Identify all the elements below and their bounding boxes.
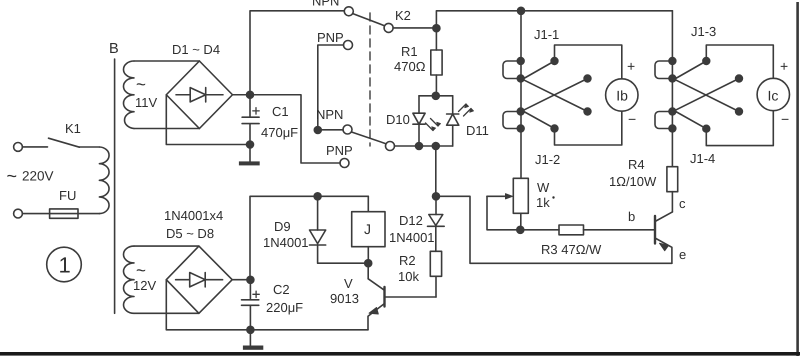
wire: base of 9013 (385, 296, 437, 298)
wire (655, 61, 672, 79)
svg-text:J1-2: J1-2 (535, 152, 560, 167)
contact blade J1-3 (674, 61, 706, 80)
svg-text:11V: 11V (135, 95, 157, 110)
svg-text:J: J (364, 221, 371, 237)
node (517, 125, 524, 132)
svg-text:D1 ~ D4: D1 ~ D4 (172, 42, 220, 57)
svg-text:470Ω: 470Ω (394, 59, 426, 74)
node (584, 108, 591, 115)
svg-text:C2: C2 (273, 282, 290, 297)
node: AC input terminal lower (14, 209, 23, 218)
contact blade J1-1 (522, 61, 555, 80)
svg-text:J1-4: J1-4 (690, 151, 715, 166)
switch K2 upper: NPN throw (344, 7, 353, 16)
resistor R2 (430, 251, 441, 276)
node (669, 58, 676, 65)
switch K2 lower blade (352, 132, 386, 144)
node (365, 260, 372, 267)
svg-text:D5 ~ D8: D5 ~ D8 (166, 226, 214, 241)
resistor R4 (667, 167, 678, 192)
switch K2 upper pole (384, 23, 393, 32)
svg-text:D9: D9 (274, 219, 291, 234)
contact crossover wire (522, 79, 588, 112)
wire to meter Ic (706, 45, 773, 78)
switch K1 (49, 138, 80, 147)
svg-text:D11: D11 (466, 123, 489, 138)
label circled 1 (47, 247, 82, 282)
svg-text:R4: R4 (628, 157, 645, 172)
node (551, 125, 558, 132)
svg-text:D12: D12 (399, 213, 423, 228)
wire (233, 94, 251, 96)
K2 mechanical link (dashed) (369, 13, 371, 146)
wire (436, 11, 672, 28)
svg-text:10k: 10k (398, 269, 419, 284)
node (247, 91, 254, 98)
wire (419, 95, 453, 97)
bridge rectifier D5~D8 (166, 246, 232, 313)
svg-text:D10: D10 (386, 112, 410, 127)
svg-text:Ib: Ib (616, 88, 628, 104)
resistor R3 (559, 225, 584, 235)
node (736, 75, 743, 82)
node (314, 127, 321, 134)
potentiometer wiper (487, 195, 508, 197)
svg-text:NPN: NPN (316, 107, 343, 122)
node (517, 75, 524, 82)
transformer secondary 11V (123, 61, 134, 129)
contact crossover wire (522, 79, 588, 112)
wire (232, 279, 250, 281)
ground (249, 330, 251, 346)
wire (22, 213, 49, 215)
svg-text:J1-1: J1-1 (534, 27, 559, 42)
wire (134, 245, 199, 247)
wire to meter Ib (555, 45, 622, 79)
resistor R1 (435, 32, 437, 50)
node (433, 193, 440, 200)
node (247, 141, 254, 148)
contact blade J1-2 (522, 111, 555, 129)
node (433, 25, 440, 32)
wire (78, 213, 99, 215)
fuse FU (50, 209, 78, 218)
wire (584, 229, 656, 231)
node (669, 125, 676, 132)
node (416, 143, 423, 150)
node (247, 326, 254, 333)
svg-text:1N4001: 1N4001 (263, 235, 309, 250)
wire: +11V rail up and to NPN contact (250, 11, 344, 95)
wire (254, 95, 341, 163)
svg-text:R3 47Ω/W: R3 47Ω/W (541, 242, 602, 257)
wire (393, 27, 436, 29)
wire (134, 312, 199, 314)
wire from meter Ic (706, 111, 773, 146)
node (314, 193, 321, 200)
relay coil J (367, 196, 369, 211)
svg-text:1Ω/10W: 1Ω/10W (609, 174, 657, 189)
svg-text:~: ~ (136, 75, 146, 94)
svg-text:9013: 9013 (330, 291, 359, 306)
wire (134, 60, 199, 62)
wire (395, 145, 453, 147)
meter Ic (757, 78, 789, 110)
wire (503, 112, 521, 129)
svg-text:+: + (780, 58, 788, 74)
svg-text:220V: 220V (22, 169, 54, 184)
scan border right (796, 2, 799, 356)
capacitor C1 (242, 95, 259, 145)
node (518, 7, 525, 14)
transistor V 9013 (367, 263, 369, 279)
node (517, 108, 524, 115)
contact crossover wire (673, 79, 739, 112)
svg-text:470μF: 470μF (261, 125, 298, 140)
node (669, 108, 676, 115)
svg-text:Ic: Ic (768, 88, 779, 104)
wire (318, 129, 343, 131)
svg-text:J1-3: J1-3 (691, 24, 716, 39)
wire (524, 229, 559, 231)
contact crossover wire (673, 79, 739, 112)
node (432, 143, 439, 150)
svg-text:C1: C1 (272, 104, 289, 119)
svg-text:~: ~ (7, 166, 18, 186)
transformer core (114, 59, 116, 313)
svg-text:V: V (344, 276, 353, 291)
node (247, 276, 254, 283)
svg-text:1N4001x4: 1N4001x4 (164, 208, 223, 223)
wire: V+ of lower supply up to relay line (250, 196, 368, 279)
wire (520, 11, 522, 179)
svg-text:W: W (537, 180, 550, 195)
node (517, 226, 524, 233)
wire (134, 128, 199, 130)
svg-text:R1: R1 (401, 44, 418, 59)
node (736, 108, 743, 115)
wire (79, 146, 99, 148)
svg-text:PNP: PNP (326, 143, 353, 158)
svg-text:B: B (109, 41, 119, 57)
contact PNP upper (344, 41, 353, 50)
transformer secondary 12V (123, 246, 134, 313)
svg-text:220μF: 220μF (266, 300, 303, 315)
wire (22, 146, 47, 148)
svg-text:K2: K2 (395, 8, 411, 23)
node (669, 75, 676, 82)
scan border bottom (0, 352, 800, 356)
wire: bottom rail (250, 329, 368, 331)
switch K2 upper blade (353, 14, 385, 26)
wire (166, 95, 250, 145)
transistor under test (655, 212, 672, 222)
bridge rectifier D1~D4 (166, 61, 232, 129)
meter Ib (606, 79, 638, 111)
svg-text:12V: 12V (133, 278, 156, 293)
wire (318, 45, 344, 130)
node (703, 125, 710, 132)
node (551, 58, 558, 65)
wire (503, 61, 521, 79)
switch K2 lower pole (386, 142, 395, 151)
contact blade J1-4 (674, 111, 706, 129)
wire: emitter return (436, 196, 672, 263)
svg-text:−: − (628, 111, 636, 127)
wire (166, 280, 250, 330)
LED D11 (452, 96, 454, 114)
wire (435, 146, 437, 196)
ground (249, 145, 251, 162)
LED D10 (418, 96, 420, 113)
svg-text:K1: K1 (65, 121, 81, 136)
wire from meter Ib (555, 111, 622, 145)
capacitor C2 (242, 280, 259, 330)
contact NPN lower (343, 125, 352, 134)
contact PNP lower (340, 159, 349, 168)
svg-text:1: 1 (59, 253, 71, 278)
wire (655, 112, 672, 129)
svg-text:c: c (679, 196, 686, 211)
node (703, 58, 710, 65)
node (432, 92, 439, 99)
node: AC input terminal upper (14, 143, 23, 152)
svg-text:−: − (781, 111, 789, 127)
transformer primary winding (99, 147, 109, 214)
svg-text:1k: 1k (536, 195, 550, 210)
node (517, 58, 524, 65)
svg-text:FU: FU (59, 188, 76, 203)
svg-text:+: + (627, 58, 635, 74)
wire (671, 11, 673, 167)
svg-text:R2: R2 (399, 253, 416, 268)
svg-text:b: b (628, 209, 635, 224)
svg-text:1N4001: 1N4001 (389, 230, 435, 245)
svg-text:e: e (679, 247, 686, 262)
svg-text:PNP: PNP (317, 30, 344, 45)
potentiometer W (513, 178, 528, 213)
diode D12 (435, 196, 437, 214)
svg-text:NPN: NPN (312, 0, 339, 9)
node (584, 75, 591, 82)
diode D9 (317, 196, 319, 230)
